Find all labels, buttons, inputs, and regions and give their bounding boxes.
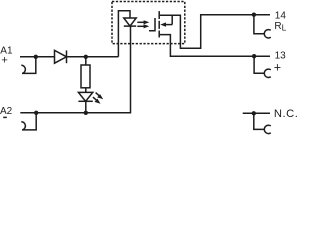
node junction dot at A1 clamp (34, 55, 38, 59)
LED emission arrow 1 (96, 93, 104, 100)
terminal A2 clamp symbol (21, 113, 36, 130)
svg-text:A2: A2 (0, 106, 13, 117)
LED indicator (status LED) (78, 92, 92, 112)
opto LED (emitter diode) (124, 18, 136, 26)
node junction dot at resistor branch (84, 55, 88, 59)
opto LED anode lead (118, 11, 130, 57)
transistor Q1 channel bottom segment (source) (158, 31, 160, 38)
LED emission arrow 2 (93, 97, 101, 104)
wire Q1 drain to terminal 14 (159, 15, 270, 49)
optocoupler U1 dashed isolation box (112, 2, 185, 44)
transistor Q1 channel middle segment (body) (158, 21, 160, 29)
label - (A2 polarity) (3, 116, 7, 118)
opto light arrow 2 (137, 24, 149, 28)
svg-text:+: + (274, 61, 281, 75)
terminal 13 clamp symbol (254, 56, 271, 77)
wire A1 input line (20, 56, 118, 58)
terminal A1 clamp symbol (21, 57, 36, 74)
transistor Q1 gate electrode (149, 18, 155, 31)
terminal 14 clamp symbol (254, 15, 271, 38)
node junction dot at A2 clamp (34, 111, 38, 115)
node junction dot at terminal 13 (252, 54, 256, 58)
transistor Q1 channel top segment (drain) (158, 11, 160, 19)
wire N.C. terminal stub (243, 112, 270, 114)
terminal N.C. clamp symbol (254, 113, 271, 133)
resistor R1 (81, 57, 90, 93)
wire A2 input line (20, 26, 130, 113)
svg-text:+: + (1, 55, 7, 67)
node junction dot at terminal N.C. (252, 111, 256, 115)
svg-text:N.C.: N.C. (274, 108, 299, 120)
transistor Q1 body arrow (160, 15, 172, 27)
diode D1 (series protection diode) (55, 50, 67, 63)
opto light arrow 1 (137, 20, 149, 24)
wire Q1 source to terminal 13 (159, 35, 270, 57)
svg-text:RL: RL (274, 21, 286, 33)
node junction dot at LED to A2 wire (84, 111, 88, 115)
node junction dot at terminal 14 (252, 13, 256, 17)
